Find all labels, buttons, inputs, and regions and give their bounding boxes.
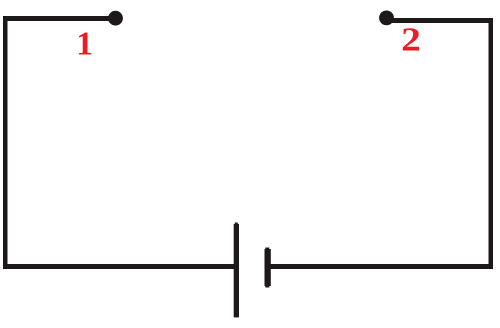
- svg-text:1: 1: [76, 26, 93, 63]
- svg-text:2: 2: [401, 20, 421, 57]
